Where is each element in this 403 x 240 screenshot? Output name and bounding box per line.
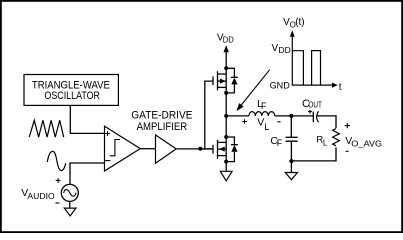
svg-text:(t): (t) [295, 17, 304, 28]
svg-text:V: V [257, 117, 264, 129]
svg-text:DD: DD [223, 35, 234, 45]
svg-text:V: V [272, 43, 279, 54]
svg-text:O_AVG: O_AVG [351, 138, 382, 148]
svg-text:OUT: OUT [308, 101, 322, 110]
svg-text:DD: DD [279, 45, 291, 55]
svg-text:F: F [277, 138, 283, 148]
svg-text:F: F [261, 101, 267, 111]
svg-text:GND: GND [270, 80, 291, 90]
svg-text:AMPLIFIER: AMPLIFIER [137, 121, 188, 133]
svg-text:AUDIO: AUDIO [27, 191, 55, 201]
svg-text:GATE-DRIVE: GATE-DRIVE [131, 110, 192, 122]
svg-text:t: t [339, 82, 342, 93]
svg-text:L: L [264, 122, 269, 132]
svg-text:OSCILLATOR: OSCILLATOR [44, 90, 100, 102]
svg-text:L: L [323, 138, 328, 147]
